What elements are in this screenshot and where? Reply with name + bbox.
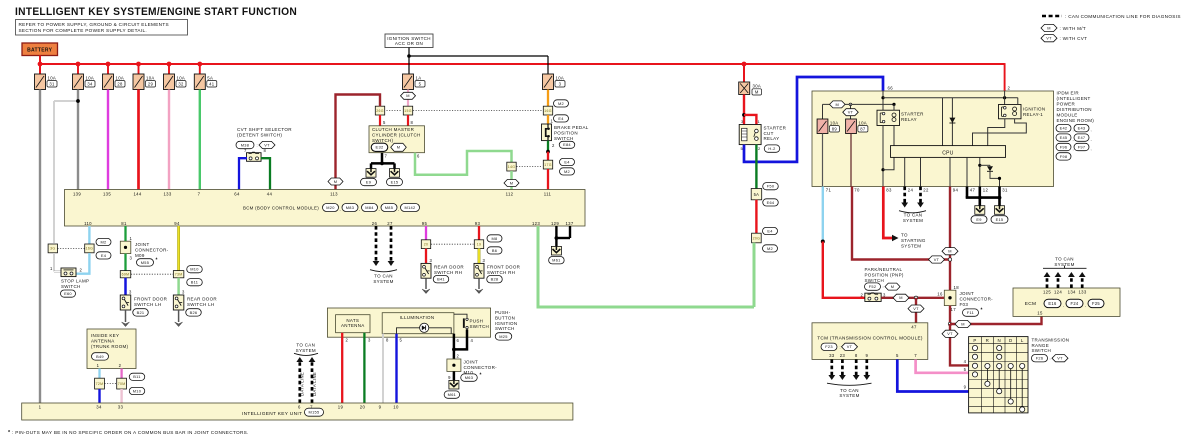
- wire: BCM pin 113 to connector 26G (dark red): [336, 95, 381, 190]
- wire: starter cut relay pin 2 to 5A link (green): [755, 145, 757, 189]
- svg-text:PARK/NEUTRAL: PARK/NEUTRAL: [865, 267, 903, 272]
- junction circle pin70/pin94 nets: [948, 258, 951, 261]
- oval E4 right of 16G: [554, 115, 569, 122]
- svg-text:30A: 30A: [753, 83, 762, 88]
- fuse 10A 34: [73, 74, 84, 90]
- svg-text:20: 20: [424, 243, 429, 247]
- svg-text:M20: M20: [326, 205, 335, 210]
- ground arrow below front door switch LH: [125, 310, 127, 322]
- fuse feeders from bus: [77, 64, 79, 75]
- svg-text:5A: 5A: [207, 75, 213, 80]
- ground arrow below front door switch RH: [478, 278, 480, 289]
- svg-text:M: M: [755, 89, 759, 94]
- NATS antenna box: [336, 315, 370, 333]
- oval M38 and hexagon VT: [236, 141, 254, 148]
- svg-text:70: 70: [854, 188, 860, 193]
- legend: with M/T hexagon: [1041, 24, 1057, 31]
- svg-text:M2: M2: [100, 239, 106, 244]
- IPDM internal: M/VT select line: [823, 103, 895, 105]
- wire: fusible link to starter cut relay (red): [743, 95, 745, 125]
- oval M2 right of 17G: [560, 168, 575, 175]
- svg-text:IGNITION SWITCH: IGNITION SWITCH: [387, 36, 431, 41]
- svg-text:BUTTON: BUTTON: [495, 315, 515, 320]
- svg-text:M155: M155: [309, 410, 320, 415]
- svg-text:TO CAN: TO CAN: [374, 273, 393, 278]
- svg-text:*: *: [981, 308, 983, 314]
- svg-text:1: 1: [130, 236, 133, 241]
- svg-text:2: 2: [1008, 86, 1011, 91]
- svg-text:66: 66: [888, 86, 894, 91]
- svg-text:DISTRIBUTION: DISTRIBUTION: [1057, 107, 1092, 112]
- joint connector M09: [120, 241, 131, 253]
- hexagon M on BCM 112 wire: [504, 180, 519, 187]
- svg-text:ANTENNA: ANTENNA: [91, 338, 115, 343]
- wire: 69M to front door switch LH (blue): [124, 278, 127, 295]
- svg-text:SWITCH: SWITCH: [61, 284, 81, 289]
- CAN lines from ECM up: [1046, 277, 1049, 289]
- push switch symbol: [454, 314, 468, 337]
- oval E32: [371, 143, 388, 151]
- svg-text:E15: E15: [996, 217, 1004, 222]
- oval E4 right of 17G: [560, 158, 575, 165]
- connector 3G: [48, 244, 57, 253]
- svg-text:FRONT DOOR: FRONT DOOR: [487, 265, 521, 270]
- fuse 10A 29: [133, 74, 144, 90]
- svg-text:3: 3: [483, 258, 486, 263]
- rear door switch LH: [173, 295, 184, 310]
- wire: 3G to stop lamp switch pin 1 (white): [53, 253, 55, 272]
- ground E9 below IPDM: [975, 206, 985, 215]
- svg-text:144: 144: [133, 191, 141, 196]
- junction dots on battery bus: [38, 62, 43, 67]
- svg-text:47: 47: [970, 188, 976, 193]
- svg-text:H-2: H-2: [768, 146, 775, 151]
- dotted link 69M-73M: [131, 273, 173, 275]
- ground M61 below joint connector M10: [449, 380, 459, 389]
- svg-text:F97: F97: [1078, 144, 1086, 149]
- connector 17G: [543, 160, 552, 169]
- connector 15G: [403, 106, 412, 115]
- svg-text:129: 129: [551, 221, 559, 226]
- svg-text:112: 112: [506, 191, 514, 196]
- illumination LED symbol: [420, 323, 429, 332]
- svg-text:1: 1: [551, 119, 554, 124]
- svg-text::: :: [1050, 356, 1051, 361]
- svg-text:F23: F23: [825, 344, 833, 349]
- svg-text:,: ,: [379, 207, 380, 212]
- wire: BCM pin 123 to 20G chain (light green): [538, 226, 754, 307]
- svg-text:6: 6: [298, 405, 301, 410]
- svg-text:95: 95: [422, 221, 428, 226]
- svg-text:23: 23: [840, 353, 846, 358]
- svg-text:19: 19: [477, 243, 482, 247]
- svg-text:R: R: [986, 338, 989, 343]
- stop lamp switch: [61, 268, 76, 277]
- svg-text:47: 47: [911, 325, 917, 330]
- connector 20G: [752, 233, 762, 243]
- svg-text:5: 5: [419, 81, 422, 86]
- BCM (body control module) box: [65, 190, 586, 227]
- oval B21: [133, 309, 149, 316]
- svg-text:F52: F52: [869, 284, 877, 289]
- svg-text:B21: B21: [137, 310, 145, 315]
- IPDM internal: CPU outputs: [904, 157, 906, 186]
- svg-text:INSIDE KEY: INSIDE KEY: [91, 333, 119, 338]
- svg-text:CPU: CPU: [942, 150, 954, 156]
- svg-text:M: M: [961, 321, 965, 326]
- wire: F03 pin 17 to ECM pin 15 node (dark red): [949, 306, 951, 324]
- svg-text:SWITCH: SWITCH: [470, 324, 490, 329]
- svg-text:BCM (BODY CONTROL MODULE): BCM (BODY CONTROL MODULE): [243, 206, 319, 212]
- svg-text:3G: 3G: [50, 247, 55, 251]
- svg-text:10A: 10A: [146, 75, 155, 80]
- svg-text:17G: 17G: [544, 163, 552, 167]
- svg-text:IPDM E/R: IPDM E/R: [1057, 91, 1080, 96]
- hexagon M inside clutch box: [391, 143, 407, 151]
- ground M61: [551, 246, 561, 255]
- wire: detent switch to BCM pin 64 (blue): [239, 158, 247, 189]
- wire: M09 to connector 69M (green): [124, 254, 126, 271]
- svg-text:POWER: POWER: [1057, 102, 1076, 107]
- dotted link 14G-17G: [517, 166, 543, 168]
- svg-text:20: 20: [360, 405, 366, 410]
- svg-text:F98: F98: [1060, 154, 1068, 159]
- fuse 10A 28: [103, 74, 114, 90]
- svg-text:10A: 10A: [48, 75, 57, 80]
- svg-text:E43: E43: [1078, 126, 1086, 131]
- dotted link 3G-16G: [58, 247, 85, 249]
- svg-text:2: 2: [80, 268, 83, 273]
- range switch contacts: [972, 345, 977, 350]
- svg-text:F11: F11: [967, 310, 974, 315]
- svg-text:F26: F26: [1036, 356, 1044, 361]
- svg-text:16: 16: [937, 291, 943, 296]
- svg-text:,: ,: [1063, 302, 1064, 307]
- svg-text:SYSTEM: SYSTEM: [901, 244, 921, 249]
- hexagon VT on TCM 47 wire: [908, 305, 924, 312]
- svg-text:123: 123: [532, 221, 540, 226]
- oval M55 with asterisk: [137, 259, 154, 266]
- svg-text::: :: [883, 284, 884, 289]
- oval F26 and hexagon VT: [1032, 355, 1048, 362]
- svg-text:E15: E15: [391, 179, 399, 184]
- ovals E16 F24 F25: [1044, 299, 1061, 307]
- front door switch RH: [474, 263, 484, 278]
- svg-text:M10: M10: [190, 267, 199, 272]
- svg-text:26: 26: [372, 221, 378, 226]
- rear door switch RH: [421, 263, 431, 278]
- wire: fuse 34 to BCM pin 139 (gray): [77, 90, 79, 190]
- svg-text:E60: E60: [64, 291, 72, 296]
- svg-text:CLUTCH MASTER: CLUTCH MASTER: [372, 127, 415, 132]
- svg-text:2: 2: [346, 337, 349, 342]
- svg-text:64: 64: [234, 191, 240, 196]
- clutch master cylinder (clutch switch) box: [369, 126, 425, 153]
- svg-text:M: M: [899, 295, 903, 300]
- wire: 26G to clutch switch pin 5 (red): [379, 115, 381, 126]
- svg-text:M2: M2: [767, 246, 773, 251]
- ground arrow below rear door switch RH: [425, 278, 427, 289]
- oval M10: [187, 266, 203, 273]
- oval B11: [187, 279, 203, 286]
- svg-text:8: 8: [264, 148, 267, 153]
- CVT detent switch box: [247, 152, 261, 161]
- ovals E42 E43 E45 E47 F96 F97 F98: [1056, 125, 1071, 132]
- 5A fusible link box: [751, 189, 762, 200]
- svg-text:POSITION: POSITION: [554, 131, 578, 136]
- wire: BCM pin 93 to connector 19 (red): [478, 226, 480, 240]
- svg-text:E45: E45: [1060, 135, 1068, 140]
- ground E15 below IPDM: [995, 206, 1005, 215]
- wire: starter cut relay pin 5 to IPDM pin 66 (blue): [744, 77, 883, 162]
- svg-text:B28: B28: [491, 277, 499, 282]
- svg-text:: PIN-OUTS MAY BE IN NO SPECIF: : PIN-OUTS MAY BE IN NO SPECIFIC ORDER O…: [12, 430, 249, 435]
- oval E60: [61, 290, 76, 297]
- brake pedal position switch: [542, 124, 552, 141]
- oval F23 and hexagon VT inside TCM: [821, 343, 837, 350]
- ground arrow below rear door switch LH: [178, 310, 180, 322]
- dotted link 72M-70M: [105, 383, 117, 385]
- wire: node to transmission range switch pin 4 (dark red): [950, 324, 969, 365]
- svg-text:TO CAN: TO CAN: [296, 343, 315, 348]
- svg-text:(TRUNK ROOM): (TRUNK ROOM): [91, 344, 129, 349]
- svg-text:CVT SHIFT SELECTOR: CVT SHIFT SELECTOR: [237, 127, 292, 132]
- oval F52 and hexagon M: [865, 283, 881, 290]
- svg-text:CYLINDER (CLUTCH: CYLINDER (CLUTCH: [372, 133, 421, 138]
- svg-text:(INTELLIGENT: (INTELLIGENT: [1057, 96, 1091, 101]
- svg-text:F50: F50: [767, 184, 775, 189]
- svg-text:REFER TO POWER SUPPLY, GROUND: REFER TO POWER SUPPLY, GROUND & CIRCUIT …: [19, 22, 169, 27]
- svg-text:STARTER: STARTER: [901, 111, 924, 116]
- svg-text:CONNECTOR-: CONNECTOR-: [464, 365, 498, 370]
- IPDM internal: ignition relay wiring: [1017, 98, 1019, 105]
- wire: BCM pin 95 to connector 20 (violet): [425, 226, 427, 240]
- wire: 72M to key unit pin 34 (blue): [98, 389, 100, 403]
- svg-text:VT: VT: [1057, 356, 1063, 361]
- svg-text:REAR DOOR: REAR DOOR: [434, 265, 464, 270]
- svg-text:139: 139: [73, 191, 81, 196]
- svg-text:22: 22: [923, 188, 929, 193]
- svg-text:M: M: [1047, 25, 1051, 30]
- svg-text:,: ,: [1091, 127, 1092, 132]
- svg-text:M84: M84: [365, 205, 374, 210]
- wire: 70M to key unit pin 33 (light pink): [120, 389, 122, 403]
- svg-text:TRANSMISSION: TRANSMISSION: [1032, 337, 1070, 342]
- svg-text:M2: M2: [558, 101, 564, 106]
- front door switch LH: [120, 295, 131, 310]
- connector 14G: [507, 162, 516, 171]
- wire: BCM pin 81 to joint connector M09 (green): [124, 226, 126, 241]
- note box: power supply reference: [16, 20, 188, 36]
- svg-text:SWITCH LH: SWITCH LH: [134, 302, 161, 307]
- svg-text:RANGE: RANGE: [1032, 343, 1050, 348]
- svg-text:F96: F96: [1060, 144, 1068, 149]
- wire: 16G to stop lamp switch pin 2 (light blue): [77, 253, 90, 274]
- svg-text:10A: 10A: [86, 75, 95, 80]
- battery: [22, 43, 58, 56]
- joint connector F03: [944, 290, 956, 305]
- svg-text:28: 28: [117, 81, 123, 86]
- wire: 73M to rear door switch LH (light green): [177, 278, 180, 295]
- svg-text:M61: M61: [552, 258, 560, 263]
- svg-text:INTELLIGENT KEY UNIT: INTELLIGENT KEY UNIT: [242, 411, 302, 417]
- svg-text:7: 7: [385, 153, 388, 158]
- svg-text:JOINT: JOINT: [464, 359, 479, 364]
- svg-text:RELAY-1: RELAY-1: [1023, 112, 1043, 117]
- fuse 10A 31: [35, 74, 46, 90]
- svg-text:B11: B11: [191, 280, 199, 285]
- svg-text:TO: TO: [901, 232, 908, 237]
- svg-text:D: D: [1009, 338, 1012, 343]
- svg-text:16G: 16G: [86, 247, 94, 251]
- svg-text:70M: 70M: [118, 382, 126, 386]
- svg-text::: :: [840, 344, 841, 349]
- svg-text:M2: M2: [564, 169, 570, 174]
- svg-text:134: 134: [1068, 290, 1076, 295]
- wire: fuse 3 to connector 16G (orange): [547, 90, 549, 107]
- svg-text:DATA LINE: DATA LINE: [300, 372, 305, 396]
- svg-text:SWITCH RH: SWITCH RH: [434, 270, 462, 275]
- svg-text:ILLUMINATION: ILLUMINATION: [400, 315, 435, 320]
- svg-text:E4: E4: [101, 253, 107, 258]
- svg-text:125: 125: [1043, 290, 1051, 295]
- svg-text:E32: E32: [375, 145, 383, 150]
- wire: 17G to BCM pin 111 (red): [547, 169, 549, 190]
- wire: fuse 5 to connector 15G (pink): [407, 90, 409, 107]
- joint connector M10: [447, 359, 461, 371]
- hexagon M inside IPDM: [830, 101, 846, 108]
- svg-text:7: 7: [914, 353, 917, 358]
- wire: IPDM pin 70 (dark red) to PNP net: [852, 187, 949, 260]
- ground E15: [390, 169, 400, 178]
- svg-text:34: 34: [96, 405, 102, 410]
- fusible link 30A M: [739, 82, 750, 95]
- svg-text:33: 33: [829, 353, 835, 358]
- svg-text:M: M: [334, 179, 338, 184]
- svg-text:E64: E64: [767, 200, 775, 205]
- wire: 5A link to 20G (red): [755, 200, 757, 233]
- svg-text:15: 15: [1037, 311, 1043, 316]
- svg-text:M55: M55: [141, 260, 149, 265]
- wire: fuse 32 to BCM pin 133 (pink): [168, 90, 170, 190]
- oval B49: [92, 353, 109, 360]
- svg-text:TO CAN: TO CAN: [904, 213, 923, 218]
- svg-text:IGNITION: IGNITION: [495, 321, 517, 326]
- svg-text:17: 17: [951, 307, 957, 312]
- svg-text:71: 71: [826, 188, 832, 193]
- svg-text:16G: 16G: [544, 109, 552, 113]
- svg-text:2: 2: [552, 143, 555, 148]
- wires: BCM pins 129/137 to ground M61 (black): [555, 226, 557, 238]
- dotted link 20-19: [431, 243, 474, 245]
- svg-text:SYSTEM: SYSTEM: [903, 218, 923, 223]
- hexagon VT on pin 70 wire: [929, 256, 945, 263]
- svg-text:135: 135: [103, 191, 111, 196]
- wire: battery power bus: [40, 63, 1005, 65]
- svg-text:: WITH CVT: : WITH CVT: [1060, 36, 1088, 41]
- svg-text:M85: M85: [385, 205, 393, 210]
- svg-text:7: 7: [244, 148, 247, 153]
- hexagon VT inside IPDM: [849, 103, 852, 106]
- svg-text:MODULE: MODULE: [1057, 113, 1078, 118]
- CPU box: [891, 146, 1006, 158]
- svg-text:TCM (TRANSMISSION CONTROL MODU: TCM (TRANSMISSION CONTROL MODULE): [817, 335, 923, 340]
- ECM box: [1013, 288, 1120, 316]
- svg-text:3: 3: [182, 290, 185, 295]
- svg-text:20G: 20G: [753, 236, 761, 240]
- svg-text:10: 10: [393, 405, 399, 410]
- oval M2: [96, 238, 111, 245]
- svg-text:34: 34: [87, 81, 93, 86]
- wire: antenna pin 1 to 72M (sky blue): [98, 369, 100, 379]
- svg-text:NATS: NATS: [346, 318, 359, 323]
- svg-text:1: 1: [50, 266, 53, 271]
- svg-text:89: 89: [832, 126, 838, 131]
- svg-text:ACC OR ON: ACC OR ON: [395, 41, 423, 46]
- svg-text:M61: M61: [448, 392, 456, 397]
- svg-text:E42: E42: [1060, 126, 1068, 131]
- oval M25: [495, 333, 512, 340]
- svg-text:83: 83: [886, 188, 892, 193]
- svg-text:32: 32: [178, 81, 184, 86]
- hexagon M on BCM 113 wire: [328, 178, 343, 185]
- svg-text:SWITCH RH: SWITCH RH: [487, 270, 515, 275]
- connector 16G below BCM: [85, 244, 94, 253]
- svg-text:SWITCH: SWITCH: [865, 278, 885, 283]
- svg-text:4: 4: [964, 359, 967, 364]
- svg-text:: CAN COMMUNICATION LINE FOR D: : CAN COMMUNICATION LINE FOR DIAGNOSIS: [1065, 14, 1181, 19]
- svg-text:VT: VT: [264, 142, 270, 147]
- hexagon M on PNP wire: [893, 294, 909, 301]
- svg-text:*: *: [480, 373, 482, 379]
- wires: IPDM pins 47/12/31 to grounds (black): [966, 187, 969, 198]
- svg-text:JOINT: JOINT: [135, 242, 150, 247]
- svg-text:PUSH: PUSH: [470, 319, 484, 324]
- svg-text:M: M: [406, 93, 410, 98]
- illumination internal wiring: [397, 328, 452, 334]
- svg-text:3: 3: [559, 81, 562, 86]
- svg-text:41: 41: [209, 81, 215, 86]
- svg-text:M: M: [891, 284, 895, 289]
- svg-text:VT: VT: [947, 331, 953, 336]
- oval M10: [129, 387, 145, 394]
- svg-text:1: 1: [39, 405, 42, 410]
- wire: branch to stop lamp switch (white): [54, 100, 78, 102]
- svg-text:4: 4: [471, 338, 474, 343]
- svg-text:B41: B41: [437, 277, 445, 282]
- oval M8: [487, 235, 502, 242]
- svg-text:STARTER: STARTER: [764, 125, 787, 130]
- svg-text:F24: F24: [1071, 301, 1079, 306]
- svg-text:VT: VT: [934, 257, 940, 262]
- svg-text:6: 6: [457, 338, 460, 343]
- svg-text:1A: 1A: [416, 75, 422, 80]
- connector 70M: [117, 378, 127, 389]
- svg-text:M: M: [836, 102, 840, 107]
- svg-text:F25: F25: [1092, 301, 1100, 306]
- svg-text:133: 133: [1078, 290, 1086, 295]
- legend: with CVT hexagon: [1041, 35, 1057, 42]
- svg-text:SYSTEM: SYSTEM: [1054, 262, 1074, 267]
- IPDM E/R box: [812, 91, 1054, 187]
- svg-text:9: 9: [865, 353, 868, 358]
- svg-text:M8: M8: [491, 236, 497, 241]
- svg-text:10A: 10A: [858, 120, 867, 125]
- svg-text:44: 44: [267, 191, 273, 196]
- connector 69M: [120, 271, 131, 278]
- wire: 16G to brake pedal switch pin 1 (orange): [547, 115, 549, 124]
- svg-text:SWITCH LH: SWITCH LH: [187, 302, 214, 307]
